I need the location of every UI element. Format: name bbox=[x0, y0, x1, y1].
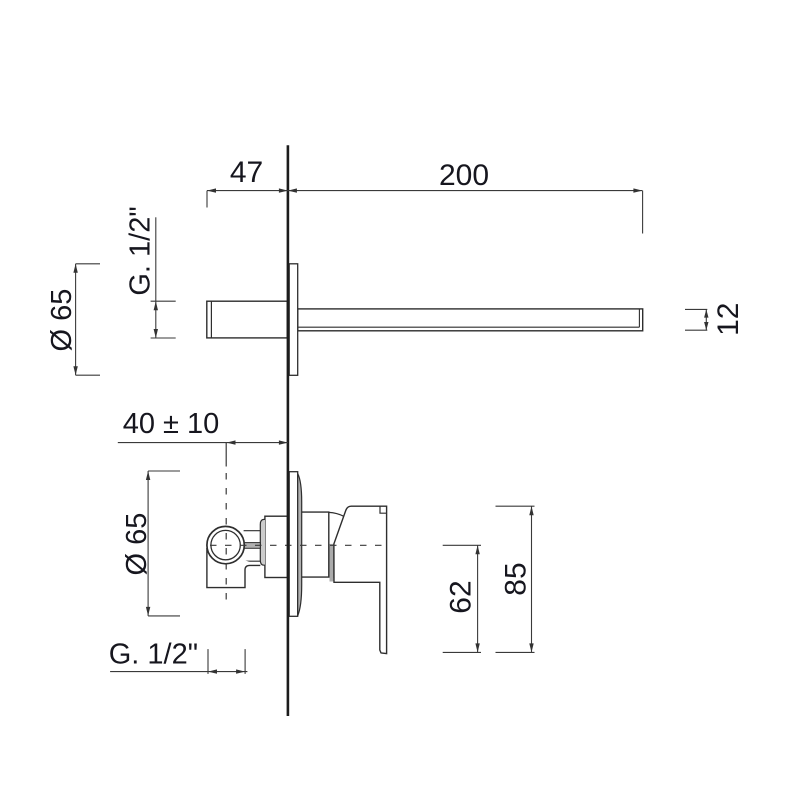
extension stub right of 200 bbox=[642, 191, 644, 234]
tick top D65 lower bbox=[148, 470, 180, 472]
svg-text:G. 1/2": G. 1/2" bbox=[109, 639, 198, 671]
dimension G 1/2 (lower) bbox=[110, 671, 247, 673]
dimension line 47/200 bbox=[207, 190, 642, 192]
arrow left 47 bbox=[207, 188, 216, 192]
spout body (outside wall, top view) bbox=[298, 309, 643, 331]
extension stub left of 47 bbox=[206, 191, 208, 208]
dimension 62 bbox=[477, 545, 479, 652]
vertical dashed centerline bbox=[225, 473, 227, 603]
wall line bbox=[287, 145, 290, 716]
arrow down D65 lower bbox=[146, 607, 150, 616]
valve wall flange plate (lower view) bbox=[289, 472, 298, 617]
supply elbow inner circle bbox=[211, 530, 240, 559]
arrow at wall bbox=[279, 440, 288, 444]
spout inlet cap line bbox=[210, 301, 212, 337]
arrow right 200 bbox=[633, 188, 642, 192]
spout wall flange (top view) bbox=[289, 264, 298, 376]
arrow at valve center bbox=[227, 440, 236, 444]
cartridge body (inside wall) bbox=[265, 516, 288, 577]
arrow left G1/2 lower bbox=[208, 669, 217, 673]
vertical centerline solid stub bbox=[225, 443, 227, 467]
arrow down G1/2 bbox=[154, 329, 158, 338]
supply block bbox=[207, 548, 260, 588]
spout inlet stub G1/2 (inside wall, top view) bbox=[207, 301, 287, 338]
handle collar right edge bbox=[334, 544, 338, 582]
horizontal dashed centerline bbox=[210, 544, 387, 546]
svg-text:40 ± 10: 40 ± 10 bbox=[123, 408, 220, 440]
dimension 12 ticks bbox=[685, 308, 707, 310]
tick top D65 bbox=[76, 263, 100, 265]
cartridge cap bbox=[260, 519, 265, 565]
dimension 40±10 bbox=[118, 442, 288, 444]
arrow left 200 at wall bbox=[288, 188, 297, 192]
spout inner end line bbox=[638, 309, 640, 327]
arrow right G1/2 lower bbox=[236, 669, 245, 673]
spout inner bottom line bbox=[298, 326, 639, 328]
tick top 85 bbox=[496, 505, 535, 507]
svg-text:Ø 65: Ø 65 bbox=[121, 513, 153, 576]
tick right G1/2 lower bbox=[244, 649, 246, 674]
arrow right 47 at wall bbox=[279, 188, 288, 192]
tick bottom 62 bbox=[443, 651, 481, 653]
arrow up 62 bbox=[475, 545, 479, 554]
dimension D65 (top view) bbox=[75, 264, 77, 375]
svg-text:Ø 65: Ø 65 bbox=[46, 289, 78, 352]
svg-text:85: 85 bbox=[500, 562, 533, 595]
arrow down 12 bbox=[704, 322, 708, 330]
svg-text:200: 200 bbox=[439, 159, 489, 192]
arrow down D65 bbox=[73, 366, 77, 375]
supply rod bbox=[244, 543, 261, 549]
arrow up D65 bbox=[73, 264, 77, 273]
tick bottom D65 bbox=[76, 374, 100, 376]
handle sleeve bbox=[302, 512, 329, 577]
arrow up 85 bbox=[529, 506, 533, 515]
svg-text:62: 62 bbox=[445, 580, 478, 613]
svg-text:47: 47 bbox=[230, 156, 263, 189]
svg-text:G. 1/2": G. 1/2" bbox=[125, 206, 157, 295]
arrow down 85 bbox=[529, 643, 533, 652]
tick top 62 bbox=[443, 544, 481, 546]
tick bottom G1/2 bbox=[151, 337, 176, 339]
arrow up D65 lower bbox=[146, 471, 150, 480]
tick bottom D65 lower bbox=[148, 615, 180, 617]
tick bottom 85 bbox=[496, 651, 535, 653]
svg-text:12: 12 bbox=[712, 303, 745, 336]
tick top G1/2 bbox=[151, 300, 176, 302]
dimension G 1/2 (top view) bbox=[155, 217, 157, 338]
dimension D65 (lower) bbox=[147, 471, 149, 616]
escutcheon dome profile bbox=[298, 474, 302, 616]
dimension 85 bbox=[531, 506, 533, 652]
dimension 12 line bbox=[705, 309, 707, 330]
tick left G1/2 lower bbox=[207, 649, 209, 674]
arrow up G1/2 bbox=[154, 301, 158, 310]
arrow up 12 bbox=[704, 309, 708, 317]
supply elbow outer circle bbox=[207, 526, 244, 563]
supply tube outer bbox=[244, 530, 261, 532]
handle top collar curve bbox=[329, 512, 344, 516]
arrow down 62 bbox=[475, 643, 479, 652]
handle collar gray band bbox=[330, 544, 335, 582]
handle body with lever bbox=[334, 506, 387, 653]
handle notch bbox=[380, 506, 387, 513]
